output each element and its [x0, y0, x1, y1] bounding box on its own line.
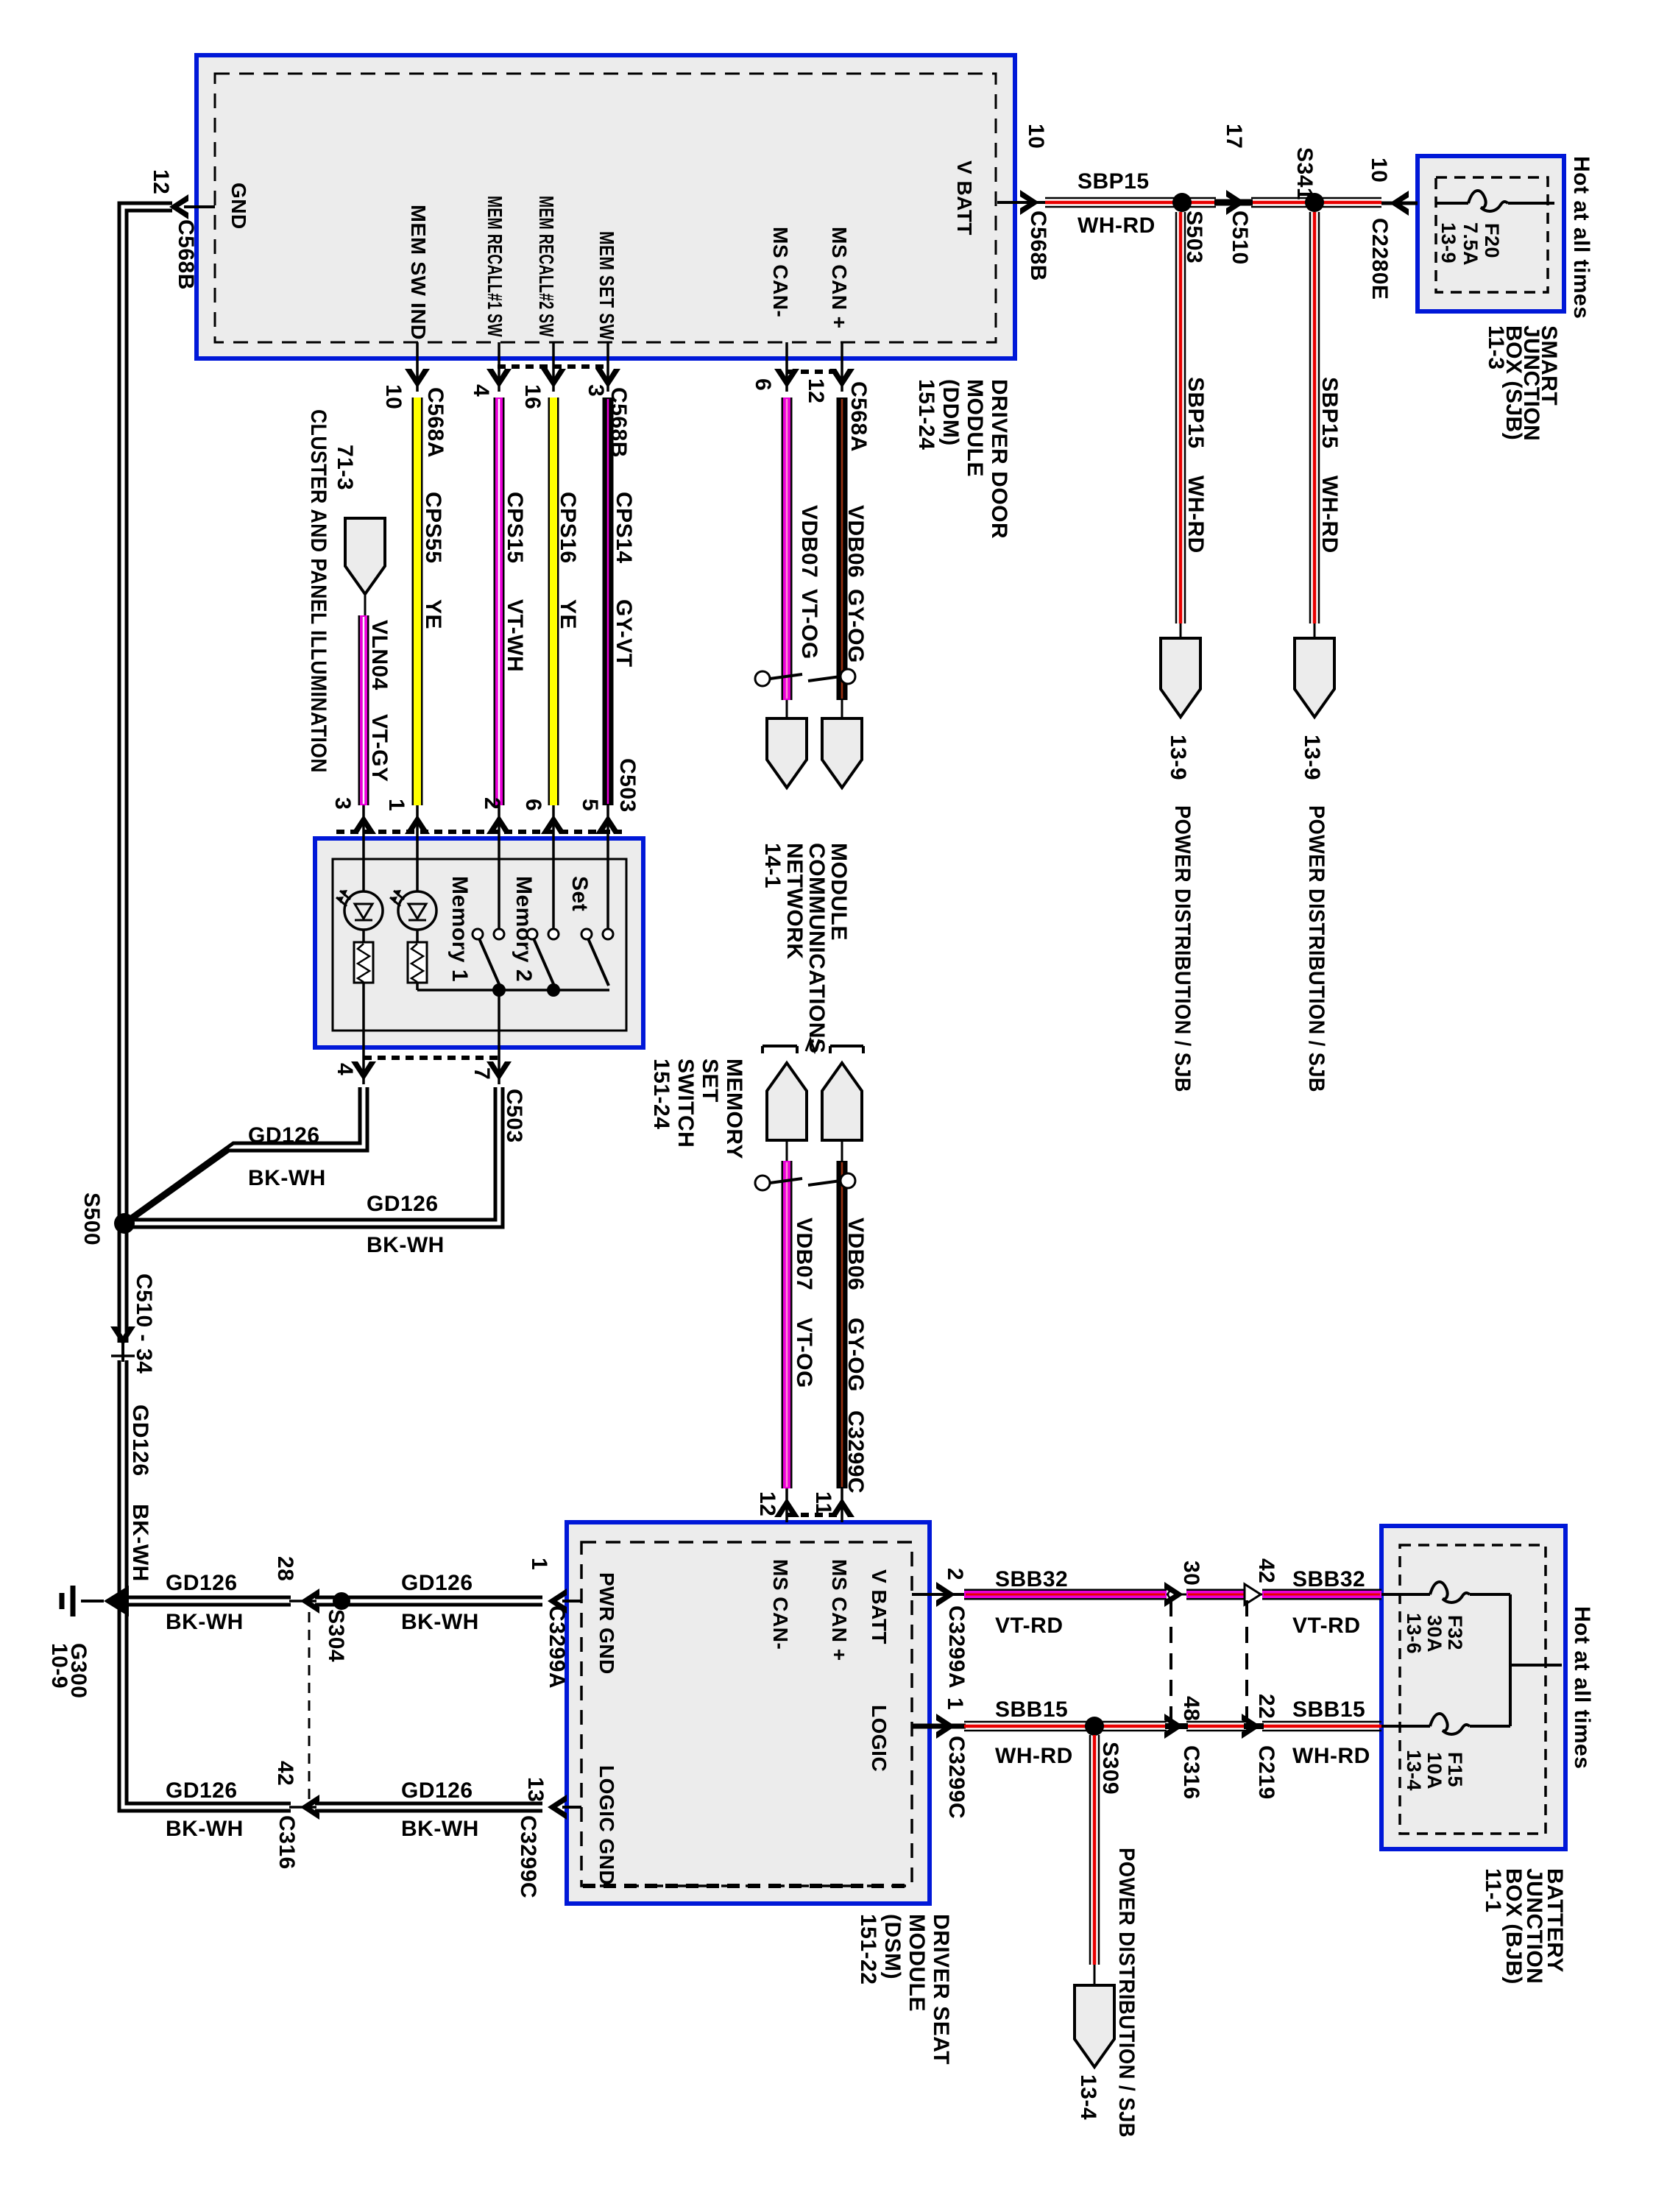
svg-text:(DSM): (DSM) — [880, 1914, 905, 1979]
svg-text:3: 3 — [330, 797, 355, 810]
svg-text:10A: 10A — [1423, 1752, 1446, 1789]
svg-text:BK-WH: BK-WH — [128, 1504, 152, 1582]
svg-text:13-9: 13-9 — [1437, 222, 1459, 264]
svg-text:VT-OG: VT-OG — [797, 589, 821, 660]
svg-text:C510: C510 — [1228, 211, 1252, 265]
svg-text:GD126: GD126 — [401, 1778, 473, 1803]
svg-text:GD126: GD126 — [166, 1778, 238, 1803]
svg-text:BK-WH: BK-WH — [166, 1817, 244, 1841]
svg-text:C316: C316 — [275, 1815, 299, 1870]
svg-text:4: 4 — [469, 384, 493, 397]
svg-text:NETWORK: NETWORK — [782, 843, 807, 959]
svg-text:WH-RD: WH-RD — [1183, 476, 1208, 554]
svg-text:48: 48 — [1179, 1696, 1203, 1721]
svg-text:SWITCH: SWITCH — [673, 1059, 698, 1148]
svg-text:GD126: GD126 — [128, 1404, 152, 1477]
svg-text:Memory 2: Memory 2 — [512, 876, 536, 982]
svg-text:10: 10 — [1367, 158, 1391, 183]
svg-text:F15: F15 — [1444, 1752, 1466, 1787]
svg-text:VT-WH: VT-WH — [503, 599, 527, 672]
svg-text:BK-WH: BK-WH — [401, 1817, 479, 1841]
svg-text:MODULE: MODULE — [963, 379, 987, 477]
svg-text:13: 13 — [523, 1777, 548, 1802]
svg-text:GND: GND — [227, 183, 250, 230]
svg-text:MEM RECALL#2 SW: MEM RECALL#2 SW — [535, 196, 558, 337]
svg-text:6: 6 — [751, 378, 775, 391]
svg-text:VLN04: VLN04 — [367, 620, 392, 690]
svg-text:6: 6 — [521, 799, 545, 811]
svg-text:C219: C219 — [1254, 1745, 1278, 1800]
svg-text:MEMORY: MEMORY — [722, 1059, 746, 1159]
svg-text:CPS16: CPS16 — [556, 492, 580, 564]
svg-text:VDB06: VDB06 — [843, 1218, 868, 1290]
svg-text:MS CAN-: MS CAN- — [769, 1559, 792, 1650]
svg-text:SBB15: SBB15 — [1292, 1697, 1365, 1722]
svg-text:S500: S500 — [79, 1192, 104, 1245]
svg-text:GD126: GD126 — [248, 1123, 320, 1148]
svg-text:C568A: C568A — [846, 381, 871, 452]
svg-text:CPS55: CPS55 — [421, 492, 445, 564]
svg-text:C3299C: C3299C — [843, 1410, 868, 1494]
svg-text:13-6: 13-6 — [1403, 1613, 1425, 1654]
svg-text:C3299C: C3299C — [516, 1815, 540, 1898]
svg-text:13-9: 13-9 — [1166, 735, 1190, 780]
svg-text:BK-WH: BK-WH — [367, 1233, 445, 1257]
svg-text:13-9: 13-9 — [1300, 735, 1324, 780]
svg-text:42: 42 — [273, 1761, 297, 1786]
svg-text:S309: S309 — [1098, 1742, 1122, 1795]
svg-text:MEM SW IND: MEM SW IND — [407, 205, 430, 340]
svg-text:POWER DISTRIBUTION / SJB: POWER DISTRIBUTION / SJB — [1304, 805, 1328, 1092]
svg-text:GY-OG: GY-OG — [843, 1318, 868, 1392]
svg-text:14-1: 14-1 — [760, 843, 785, 888]
svg-text:10-9: 10-9 — [47, 1643, 71, 1689]
svg-text:VDB07: VDB07 — [797, 505, 821, 578]
svg-text:C2280E: C2280E — [1367, 218, 1392, 300]
svg-text:SBP15: SBP15 — [1183, 377, 1208, 449]
svg-text:(DDM): (DDM) — [938, 379, 963, 446]
svg-text:C316: C316 — [1179, 1745, 1203, 1800]
svg-text:11: 11 — [811, 1491, 835, 1516]
svg-text:151-22: 151-22 — [856, 1914, 880, 1985]
svg-text:5: 5 — [578, 799, 602, 811]
svg-text:MODULE: MODULE — [905, 1914, 929, 2012]
svg-text:SBP15: SBP15 — [1078, 169, 1150, 194]
svg-text:42: 42 — [1254, 1558, 1278, 1583]
svg-text:BK-WH: BK-WH — [401, 1610, 479, 1634]
svg-text:SBB32: SBB32 — [995, 1567, 1068, 1591]
svg-text:VT-OG: VT-OG — [792, 1318, 816, 1388]
svg-text:MS CAN-: MS CAN- — [769, 227, 792, 317]
svg-text:10: 10 — [381, 384, 406, 409]
svg-text:S304: S304 — [324, 1609, 348, 1662]
svg-text:C568A: C568A — [423, 387, 447, 458]
svg-text:MEM SET SW: MEM SET SW — [595, 231, 618, 340]
svg-text:22: 22 — [1254, 1694, 1278, 1719]
svg-text:13-4: 13-4 — [1076, 2074, 1100, 2120]
svg-text:4: 4 — [333, 1063, 357, 1075]
svg-text:F32: F32 — [1444, 1615, 1466, 1650]
svg-text:S503: S503 — [1182, 211, 1206, 264]
svg-text:POWER DISTRIBUTION / SJB: POWER DISTRIBUTION / SJB — [1114, 1848, 1139, 2138]
svg-text:C3299C: C3299C — [944, 1736, 969, 1819]
svg-text:BK-WH: BK-WH — [248, 1166, 326, 1190]
svg-text:PWR GND: PWR GND — [595, 1572, 618, 1675]
svg-text:GD126: GD126 — [166, 1571, 238, 1595]
svg-text:13-4: 13-4 — [1403, 1750, 1425, 1791]
svg-text:VT-GY: VT-GY — [367, 714, 392, 782]
svg-text:GD126: GD126 — [367, 1192, 439, 1216]
svg-text:C503: C503 — [615, 758, 640, 813]
svg-text:3: 3 — [584, 384, 608, 397]
svg-text:Set: Set — [567, 876, 592, 911]
svg-text:WH-RD: WH-RD — [1078, 213, 1156, 238]
svg-text:7.5A: 7.5A — [1459, 222, 1482, 266]
svg-text:DRIVER DOOR: DRIVER DOOR — [987, 379, 1011, 539]
svg-text:Hot at all times: Hot at all times — [1569, 156, 1593, 319]
svg-text:SBB32: SBB32 — [1292, 1567, 1365, 1591]
svg-text:C503: C503 — [502, 1089, 526, 1143]
svg-text:28: 28 — [273, 1556, 297, 1581]
svg-text:2: 2 — [480, 797, 504, 810]
svg-text:GY-OG: GY-OG — [843, 589, 868, 663]
svg-text:CLUSTER AND PANEL ILLUMINATION: CLUSTER AND PANEL ILLUMINATION — [306, 409, 330, 773]
svg-text:Hot at all times: Hot at all times — [1570, 1606, 1594, 1769]
svg-text:12: 12 — [755, 1491, 779, 1516]
svg-text:C568B: C568B — [174, 219, 198, 290]
svg-text:WH-RD: WH-RD — [995, 1744, 1073, 1768]
svg-text:7: 7 — [470, 1067, 494, 1080]
svg-text:VT-RD: VT-RD — [995, 1614, 1064, 1638]
svg-text:CPS14: CPS14 — [612, 492, 636, 564]
svg-text:MEM RECALL#1 SW: MEM RECALL#1 SW — [484, 196, 506, 337]
svg-text:Memory 1: Memory 1 — [447, 876, 472, 982]
svg-text:12: 12 — [149, 169, 173, 194]
svg-text:DRIVER SEAT: DRIVER SEAT — [929, 1914, 953, 2065]
svg-text:12: 12 — [804, 378, 828, 403]
svg-text:CPS15: CPS15 — [503, 492, 527, 564]
svg-text:SBP15: SBP15 — [1317, 377, 1342, 449]
svg-text:YE: YE — [421, 599, 445, 629]
svg-text:VDB07: VDB07 — [792, 1218, 816, 1290]
svg-text:COMMUNICATIONS: COMMUNICATIONS — [804, 843, 829, 1053]
svg-text:1: 1 — [943, 1697, 967, 1710]
svg-text:V BATT: V BATT — [868, 1569, 891, 1644]
svg-text:S341: S341 — [1292, 147, 1317, 200]
svg-text:MODULE: MODULE — [827, 843, 851, 941]
svg-text:C568B: C568B — [1026, 211, 1050, 281]
svg-text:11-3: 11-3 — [1484, 325, 1508, 370]
svg-text:LOGIC GND: LOGIC GND — [595, 1765, 618, 1885]
svg-text:WH-RD: WH-RD — [1292, 1744, 1370, 1768]
svg-text:VDB06: VDB06 — [843, 505, 868, 578]
svg-text:MS CAN +: MS CAN + — [828, 1559, 851, 1661]
svg-text:2: 2 — [943, 1568, 967, 1580]
svg-text:71-3: 71-3 — [333, 445, 357, 490]
svg-text:WH-RD: WH-RD — [1317, 476, 1342, 554]
svg-text:17: 17 — [1222, 124, 1246, 149]
svg-text:C3299A: C3299A — [545, 1605, 569, 1689]
svg-text:SET: SET — [698, 1059, 722, 1103]
svg-text:1: 1 — [384, 799, 408, 811]
svg-text:10: 10 — [1024, 124, 1048, 149]
svg-text:F20: F20 — [1481, 223, 1503, 258]
svg-text:1: 1 — [527, 1558, 551, 1570]
svg-text:30A: 30A — [1423, 1615, 1446, 1653]
svg-text:BK-WH: BK-WH — [166, 1610, 244, 1634]
svg-text:SBB15: SBB15 — [995, 1697, 1068, 1722]
svg-text:11-1: 11-1 — [1481, 1868, 1505, 1912]
svg-text:151-24: 151-24 — [649, 1059, 673, 1129]
svg-text:C568B: C568B — [606, 387, 631, 458]
svg-text:GY-VT: GY-VT — [612, 599, 636, 668]
svg-text:C3299A: C3299A — [944, 1605, 969, 1689]
svg-text:LOGIC: LOGIC — [868, 1705, 891, 1772]
svg-text:30: 30 — [1179, 1561, 1203, 1586]
svg-text:V BATT: V BATT — [953, 160, 976, 236]
svg-text:VT-RD: VT-RD — [1292, 1614, 1361, 1638]
svg-text:16: 16 — [520, 384, 545, 409]
svg-text:GD126: GD126 — [401, 1571, 473, 1595]
svg-text:151-24: 151-24 — [914, 379, 938, 450]
svg-text:C510 - 34: C510 - 34 — [132, 1273, 156, 1374]
svg-text:MS CAN +: MS CAN + — [828, 227, 851, 329]
svg-text:YE: YE — [556, 599, 580, 629]
svg-text:POWER DISTRIBUTION / SJB: POWER DISTRIBUTION / SJB — [1170, 805, 1195, 1092]
